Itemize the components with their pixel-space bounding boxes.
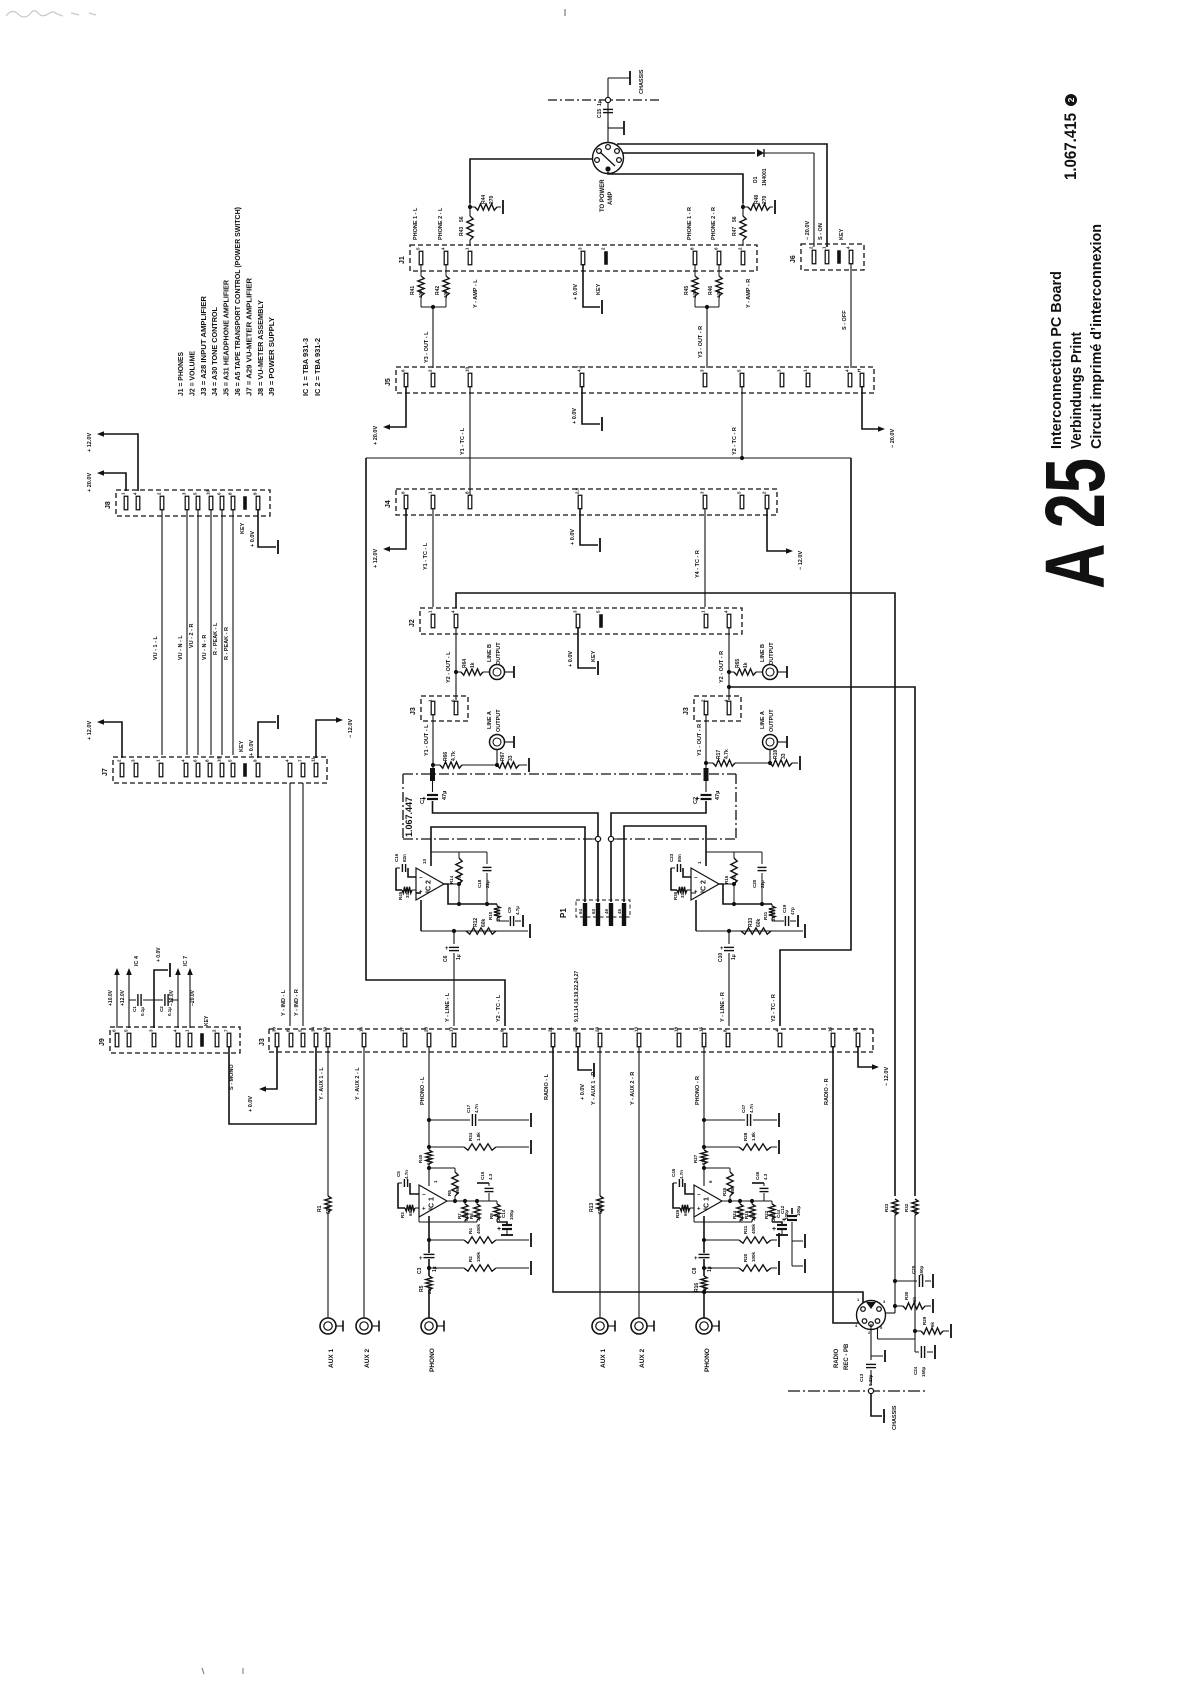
wire +0.0V arrow at J3-30 — [266, 1046, 277, 1089]
jack LINE B OUTPUT left — [490, 665, 505, 680]
capacitor C19 47p — [771, 918, 773, 921]
module 1.067.447 boundary — [403, 773, 736, 775]
svg-text:60k: 60k — [481, 918, 487, 927]
svg-text:1µ: 1µ — [432, 1266, 438, 1272]
wire from chassis to power-amp connector — [607, 78, 609, 143]
key pin J8 — [243, 496, 247, 510]
svg-text:OUTPUT: OUTPUT — [769, 642, 775, 665]
resistor R7 8.2k — [464, 1201, 466, 1204]
feedback R26 68 IC1-R — [680, 1205, 690, 1211]
svg-text:C1: C1 — [420, 797, 426, 804]
capacitor C2 0.1u J9 — [154, 999, 163, 1001]
feedback C5 4.7n IC1-L — [410, 1183, 419, 1194]
wire Y2-OUT-R — [728, 627, 730, 700]
svg-text:J2: J2 — [409, 619, 416, 627]
wire IC2-R plus input down — [691, 892, 696, 894]
svg-text:9,11,14,16,19,22,24,27: 9,11,14,16,19,22,24,27 — [574, 971, 580, 1022]
wire VU-2-R — [197, 509, 199, 755]
key pin J6 — [837, 250, 841, 264]
svg-text:−12.0V: −12.0V — [169, 989, 175, 1006]
svg-text:+ 20.0V: + 20.0V — [87, 473, 93, 492]
resistor R6 33k — [476, 1201, 478, 1204]
svg-text:47µ: 47µ — [715, 791, 721, 800]
svg-text:PHONO: PHONO — [429, 1348, 436, 1372]
capacitor C46 4.3 — [763, 1183, 765, 1186]
wire +12.0V J7 — [104, 722, 122, 758]
wire power amp to J6 S-ON — [617, 144, 827, 247]
svg-text:RADIO: RADIO — [834, 1348, 840, 1368]
chassis dash-dot line bottom — [788, 1390, 926, 1392]
svg-text:− 12.0V: − 12.0V — [348, 719, 354, 738]
svg-text:22p: 22p — [485, 880, 490, 888]
svg-text:J4: J4 — [385, 500, 392, 508]
svg-text:+ 0.0V: + 0.0V — [249, 740, 255, 756]
wire -12.0V at J3-11 — [858, 1046, 872, 1067]
capacitor C8 1u — [699, 1253, 710, 1255]
wire IC2-R pin13 to P1 — [624, 826, 706, 902]
wire Y-IND-R — [302, 783, 304, 1026]
svg-text:R67: R67 — [500, 752, 506, 761]
capacitor C15b 4.3k — [488, 1183, 490, 1186]
svg-text:150p: 150p — [921, 1366, 926, 1377]
svg-text:TO POWER: TO POWER — [600, 179, 606, 212]
svg-text:+ 12.0V: + 12.0V — [87, 433, 93, 452]
svg-text:Y2 - TC - R: Y2 - TC - R — [771, 994, 777, 1022]
svg-text:1.8k: 1.8k — [751, 1132, 756, 1141]
capacitor C18 22p — [486, 852, 488, 864]
svg-text:R43: R43 — [459, 227, 465, 236]
svg-text:6k: 6k — [893, 1208, 898, 1214]
wire left branch to Y2-TC-L — [366, 458, 505, 1026]
ground at J3-26 — [578, 1046, 592, 1070]
wire +20.0V from J8 — [104, 473, 126, 491]
svg-text:C9: C9 — [507, 907, 512, 913]
svg-text:Y1 - OUT - L: Y1 - OUT - L — [424, 724, 430, 756]
svg-text:C12: C12 — [780, 1205, 785, 1214]
svg-text:IC 2 = TBA 931-2: IC 2 = TBA 931-2 — [313, 338, 322, 396]
resistor R16 4.7k — [733, 852, 735, 858]
resistor R21 400k — [702, 1238, 706, 1242]
resistor R22 270 — [769, 1204, 775, 1219]
svg-text:18: 18 — [674, 1026, 679, 1032]
capacitor C20 22p — [761, 852, 763, 864]
wire power amp to J6 -20V via D1 — [622, 152, 755, 154]
svg-text:33: 33 — [323, 1026, 328, 1032]
svg-text:4.3: 4.3 — [488, 1173, 493, 1180]
tick mark top — [564, 9, 566, 16]
jack PHONO right — [696, 1318, 712, 1334]
svg-text:PHONE 1 - L: PHONE 1 - L — [413, 207, 419, 240]
svg-text:LINE A: LINE A — [487, 711, 493, 729]
svg-text:VU - N - L: VU - N - L — [178, 635, 184, 660]
svg-text:4.7n: 4.7n — [679, 1170, 684, 1179]
svg-text:IC 4: IC 4 — [134, 955, 140, 966]
svg-text:KEY: KEY — [839, 228, 845, 240]
capacitor C10 1u — [728, 931, 730, 944]
svg-text:+ 12.0V: + 12.0V — [87, 721, 93, 740]
svg-text:J6 = A5 TAPE TRANSPORT CONTROL: J6 = A5 TAPE TRANSPORT CONTROL (POWER SW… — [233, 207, 242, 396]
feedback C45 4.7n IC1-R — [685, 1183, 694, 1194]
svg-text:R25: R25 — [722, 1187, 727, 1196]
svg-text:47p: 47p — [790, 907, 795, 915]
svg-text:82n: 82n — [402, 854, 407, 862]
svg-text:R3: R3 — [400, 1212, 405, 1218]
svg-text:J2 = VOLUME: J2 = VOLUME — [187, 351, 196, 396]
ground at J4 middle — [580, 508, 598, 545]
capacitor C25 150p — [895, 1280, 917, 1282]
resistor R41 100 — [420, 264, 422, 276]
svg-text:J9: J9 — [99, 1038, 106, 1046]
svg-text:R42: R42 — [435, 286, 441, 295]
wire R23 to DIN pin 3 — [894, 1215, 896, 1313]
svg-text:− 12.0V: − 12.0V — [884, 1067, 890, 1086]
svg-text:63: 63 — [591, 908, 596, 914]
svg-text:AUX 1: AUX 1 — [328, 1348, 335, 1368]
capacitor C15 1u — [603, 108, 613, 110]
svg-text:R47: R47 — [732, 227, 738, 236]
svg-text:100: 100 — [716, 290, 721, 298]
resistor R67 33 — [470, 764, 497, 766]
svg-text:220: 220 — [427, 1286, 432, 1294]
jack AUX 2 left — [356, 1318, 372, 1334]
svg-text:R31: R31 — [763, 911, 768, 920]
connector J6 — [801, 244, 864, 270]
svg-text:R36: R36 — [673, 891, 678, 900]
svg-text:J7 = A29 VU-METER AMPLIFIER: J7 = A29 VU-METER AMPLIFIER — [244, 277, 253, 396]
svg-text:J4 = A30 TONE CONTROL: J4 = A30 TONE CONTROL — [210, 307, 219, 396]
wire IC1-R output down — [703, 1216, 705, 1253]
svg-text:+: + — [782, 1217, 786, 1224]
svg-text:R29: R29 — [922, 1316, 927, 1325]
svg-text:R10: R10 — [488, 911, 493, 920]
wire Y2-TC-R from J5-5 — [741, 386, 743, 458]
svg-text:0.1µ: 0.1µ — [140, 1007, 145, 1016]
svg-text:R45: R45 — [684, 286, 690, 295]
feedback R36 33 IC2-R — [677, 887, 687, 893]
node junction R47/R48 — [741, 205, 745, 209]
svg-text:+: + — [497, 1226, 501, 1233]
svg-text:− 12.0V: − 12.0V — [798, 551, 804, 570]
rail IC2-R bottom y931 — [696, 930, 803, 932]
svg-text:C8: C8 — [692, 1267, 698, 1274]
ground at J2-3 — [578, 627, 596, 668]
feedback C16 82n IC2-L — [408, 868, 416, 877]
svg-text:22p: 22p — [760, 880, 765, 888]
wire C1 to P1 — [433, 801, 599, 902]
svg-text:C2: C2 — [159, 1006, 164, 1012]
svg-text:Y4 - TC - R: Y4 - TC - R — [695, 550, 701, 578]
op-amp IC1 left — [419, 1185, 447, 1217]
svg-text:R - PEAK - L: R - PEAK - L — [213, 622, 219, 655]
module pin right — [704, 768, 709, 781]
svg-text:Circuit imprimé d’interconne: Circuit imprimé d’interconnexion — [1088, 224, 1105, 449]
resistor R48 270 — [743, 206, 748, 208]
resistor R14 4.7k — [458, 852, 460, 858]
wire PHONO-R — [703, 1046, 705, 1150]
resistor R30 6k — [893, 1304, 897, 1308]
output rail IC2-L — [444, 883, 459, 885]
feedback R3 68 IC1-L — [405, 1205, 415, 1211]
svg-text:AUX 1: AUX 1 — [600, 1348, 607, 1368]
svg-text:R24: R24 — [732, 1210, 737, 1219]
wire Y-AUX1-R — [599, 1046, 601, 1196]
svg-text:Y - AMP - R: Y - AMP - R — [746, 279, 752, 308]
wire to DIN playback left (y591 bus) — [456, 593, 895, 1196]
svg-text:J8: J8 — [105, 501, 112, 509]
svg-text:D1: D1 — [753, 176, 759, 183]
svg-text:J3: J3 — [683, 707, 690, 715]
svg-text:Y - AUX 2 - L: Y - AUX 2 - L — [355, 1067, 361, 1100]
svg-text:− 20.0V: − 20.0V — [805, 221, 811, 240]
svg-text:34: 34 — [311, 1026, 316, 1032]
output rail IC2-R — [719, 883, 734, 885]
svg-text:J3: J3 — [259, 1038, 266, 1046]
chassis ground bottom — [871, 1394, 882, 1416]
svg-text:+ 0.0V: + 0.0V — [248, 1096, 254, 1112]
wire right branch down x851 — [780, 458, 851, 1026]
svg-text:Y - LINE - R: Y - LINE - R — [720, 992, 726, 1022]
svg-text:R14: R14 — [449, 875, 454, 884]
svg-text:Y - AUX 1 - R: Y - AUX 1 - R — [591, 1072, 597, 1105]
svg-text:C45: C45 — [671, 1168, 676, 1177]
svg-text:R20: R20 — [743, 1253, 748, 1262]
svg-text:R2: R2 — [468, 1256, 473, 1262]
connector J9 — [110, 1027, 240, 1053]
svg-text:R27: R27 — [693, 1154, 698, 1163]
svg-text:R16: R16 — [694, 1283, 700, 1292]
svg-text:AMP: AMP — [608, 192, 614, 205]
wire S-MONO — [229, 1046, 316, 1124]
svg-text:−: − — [419, 876, 423, 882]
svg-text:+10.0V: +10.0V — [108, 989, 114, 1006]
jack AUX 2 right — [631, 1318, 647, 1334]
svg-text:IC 7: IC 7 — [183, 956, 189, 966]
svg-text:−: − — [422, 1193, 426, 1199]
key pin J1-2 — [604, 251, 608, 265]
wire IC1-L output down — [428, 1216, 430, 1253]
svg-text:4.7n: 4.7n — [474, 1104, 479, 1113]
svg-text:A 25: A 25 — [1028, 458, 1122, 589]
svg-text:13: 13 — [634, 1026, 639, 1032]
capacitor C13 0.22u — [870, 1324, 872, 1360]
svg-text:AUX 2: AUX 2 — [364, 1348, 371, 1368]
svg-text:PHONE 2 - L: PHONE 2 - L — [438, 207, 444, 240]
svg-text:Y2 - OUT - L: Y2 - OUT - L — [446, 651, 452, 683]
svg-text:KEY: KEY — [239, 740, 245, 752]
svg-text:J6: J6 — [790, 255, 797, 263]
svg-text:1.067.447: 1.067.447 — [404, 797, 414, 837]
svg-text:C6: C6 — [443, 955, 449, 962]
resistor R18 33 — [743, 762, 770, 764]
svg-text:J3 = A28 INPUT AMPLIFIER: J3 = A28 INPUT AMPLIFIER — [199, 295, 208, 396]
svg-text:100: 100 — [418, 290, 423, 298]
wire bus y687 to DIN — [729, 687, 915, 1196]
svg-text:23: 23 — [595, 1026, 600, 1032]
svg-text:C46: C46 — [755, 1171, 760, 1180]
resistor R66 4.7k — [433, 764, 440, 766]
resistor R25 68k — [702, 1166, 706, 1170]
svg-text:IC 1: IC 1 — [429, 1197, 436, 1210]
connector J7 — [113, 757, 327, 783]
resistor R42 100 — [445, 264, 447, 276]
svg-text:IC 1 = TBA 931-3: IC 1 = TBA 931-3 — [301, 338, 310, 396]
svg-text:56: 56 — [459, 216, 465, 222]
pencil mark top-left — [6, 11, 96, 17]
svg-text:4.7k: 4.7k — [451, 751, 457, 761]
svg-text:REC - PB: REC - PB — [844, 1343, 850, 1370]
wire Y1-TC-L J4 to J2 — [432, 508, 434, 607]
svg-text:+ 12.0V: + 12.0V — [373, 549, 379, 568]
svg-text:15: 15 — [828, 1026, 833, 1032]
wire R-PEAK-L — [221, 509, 223, 755]
svg-text:33k: 33k — [476, 1213, 481, 1221]
svg-text:1µ: 1µ — [731, 954, 737, 960]
svg-text:IC 2: IC 2 — [426, 880, 433, 893]
svg-text:100: 100 — [692, 290, 697, 298]
connector J5 — [396, 367, 874, 393]
wire power amp to R43 (left phones feed) — [470, 159, 592, 203]
svg-text:Y1 - OUT - R: Y1 - OUT - R — [697, 724, 703, 756]
svg-text:C23: C23 — [669, 853, 674, 862]
svg-text:+: + — [419, 1256, 423, 1262]
op-amp IC2 left — [416, 868, 444, 900]
resistor R40 61k — [426, 1150, 432, 1164]
resistor R47 56 — [740, 216, 746, 240]
ground J9-3 — [154, 970, 168, 1028]
svg-text:13: 13 — [449, 1026, 454, 1032]
svg-text:60k: 60k — [756, 918, 762, 927]
svg-text:R5: R5 — [419, 1285, 425, 1292]
svg-text:100µ: 100µ — [509, 1209, 514, 1220]
resistor R15 33k — [751, 1201, 753, 1204]
svg-text:+: + — [445, 946, 449, 952]
svg-text:100k: 100k — [751, 1251, 756, 1262]
svg-text:Y - LINE - L: Y - LINE - L — [445, 992, 451, 1022]
resistor R45 100 — [694, 264, 696, 276]
svg-text:45: 45 — [617, 908, 622, 914]
wire +12.0V from J8 — [104, 434, 138, 491]
svg-text:61k: 61k — [701, 1157, 706, 1165]
svg-text:Y3 - OUT - L: Y3 - OUT - L — [424, 331, 430, 363]
svg-text:61k: 61k — [426, 1157, 431, 1165]
svg-text:Y - IND - L: Y - IND - L — [281, 989, 287, 1016]
svg-text:4.7n: 4.7n — [749, 1104, 754, 1113]
capacitor C17 4.7n — [427, 1118, 431, 1122]
resistor R34 1.8k — [427, 1145, 431, 1149]
svg-text:21: 21 — [548, 1026, 553, 1032]
connector X1 TO POWER AMP — [593, 143, 624, 174]
svg-text:+: + — [772, 1226, 776, 1233]
resistor R4 400k — [427, 1238, 431, 1242]
svg-text:H: H — [857, 369, 862, 372]
svg-text:0.22µ: 0.22µ — [868, 1374, 873, 1386]
svg-text:R4: R4 — [468, 1228, 473, 1234]
ground KEY J7 — [258, 722, 276, 758]
wire C2 to P1 — [611, 801, 706, 902]
svg-text:1.8k: 1.8k — [476, 1132, 481, 1141]
wire Y1-TC-L J5 to J4 — [469, 386, 471, 496]
svg-text:+ 0.0V: + 0.0V — [156, 947, 162, 962]
svg-text:−20.0V: −20.0V — [190, 989, 196, 1006]
svg-text:C2: C2 — [693, 797, 699, 804]
capacitor C1 0.1u J9 — [129, 999, 136, 1001]
svg-text:28: 28 — [424, 1026, 429, 1032]
svg-text:68: 68 — [683, 1210, 688, 1216]
svg-text:R18: R18 — [773, 750, 779, 759]
svg-text:400k: 400k — [751, 1223, 756, 1234]
svg-text:C19: C19 — [782, 904, 787, 913]
svg-text:+: + — [720, 946, 724, 952]
module pin left — [430, 768, 435, 781]
svg-text:10: 10 — [217, 756, 222, 762]
svg-text:R12: R12 — [473, 918, 479, 927]
svg-text:400k: 400k — [476, 1223, 481, 1234]
op-amp IC1 right — [694, 1185, 722, 1217]
svg-text:4.7µ: 4.7µ — [515, 906, 520, 915]
wire RADIO-R — [833, 1046, 860, 1323]
svg-text:Interconnection PC Board: Interconnection PC Board — [1048, 271, 1065, 449]
resistor R20 100k — [702, 1266, 706, 1270]
rail IC2-L bottom y931 — [421, 930, 528, 932]
svg-text:R65: R65 — [735, 659, 741, 668]
svg-text:15: 15 — [699, 1026, 704, 1032]
svg-text:J5: J5 — [385, 378, 392, 386]
svg-text:C17: C17 — [466, 1104, 471, 1113]
svg-text:56: 56 — [732, 216, 738, 222]
connector J3 volume right — [694, 696, 741, 721]
svg-text:Y1 - TC - L: Y1 - TC - L — [460, 427, 466, 455]
jack LINE A OUTPUT left — [490, 735, 505, 750]
svg-text:1k: 1k — [470, 662, 476, 668]
jack AUX 1 left — [320, 1318, 336, 1334]
svg-text:68: 68 — [408, 1210, 413, 1216]
svg-text:J5 = A31 HEADPHONE AMPLIFIER: J5 = A31 HEADPHONE AMPLIFIER — [222, 279, 231, 396]
svg-text:RADIO - L: RADIO - L — [544, 1073, 550, 1100]
wire -12.0V J9 — [177, 975, 179, 1028]
wire VU-N-R — [210, 509, 212, 755]
svg-text:−: − — [694, 876, 698, 882]
ground KEY J8 — [258, 509, 276, 547]
svg-text:AUX 2: AUX 2 — [639, 1348, 646, 1368]
svg-text:C18: C18 — [477, 879, 482, 888]
svg-text:16: 16 — [359, 1026, 364, 1032]
svg-text:33k: 33k — [751, 1213, 756, 1221]
wire Y3-OUT-L — [421, 306, 446, 308]
wire Y-AUX2-R — [638, 1046, 640, 1318]
svg-text:C10: C10 — [718, 953, 724, 962]
capacitor C24 150p — [914, 1339, 916, 1352]
connector J2 — [420, 608, 742, 634]
svg-text:CHASSIS: CHASSIS — [639, 69, 645, 94]
capacitor C1 47u — [432, 781, 434, 792]
feedback C23 80n IC2-R — [683, 868, 691, 877]
revision circle 2 — [1065, 94, 1077, 106]
svg-text:OUTPUT: OUTPUT — [769, 709, 775, 732]
capacitor C47 4.7n — [702, 1118, 706, 1122]
resistor R44 270 — [470, 206, 475, 208]
capacitor C3 1u — [424, 1253, 435, 1255]
svg-text:68k: 68k — [326, 1205, 332, 1214]
resistor R64 1k — [456, 671, 461, 673]
key pin J2-5 — [599, 614, 603, 628]
svg-text:C15: C15 — [597, 109, 603, 118]
svg-text:R13: R13 — [589, 1203, 595, 1212]
svg-text:C1: C1 — [132, 1006, 137, 1012]
wire RADIO-L — [553, 1046, 863, 1305]
svg-text:10: 10 — [206, 489, 211, 495]
svg-text:2: 2 — [1066, 97, 1076, 102]
svg-text:4,7: 4,7 — [577, 365, 582, 372]
